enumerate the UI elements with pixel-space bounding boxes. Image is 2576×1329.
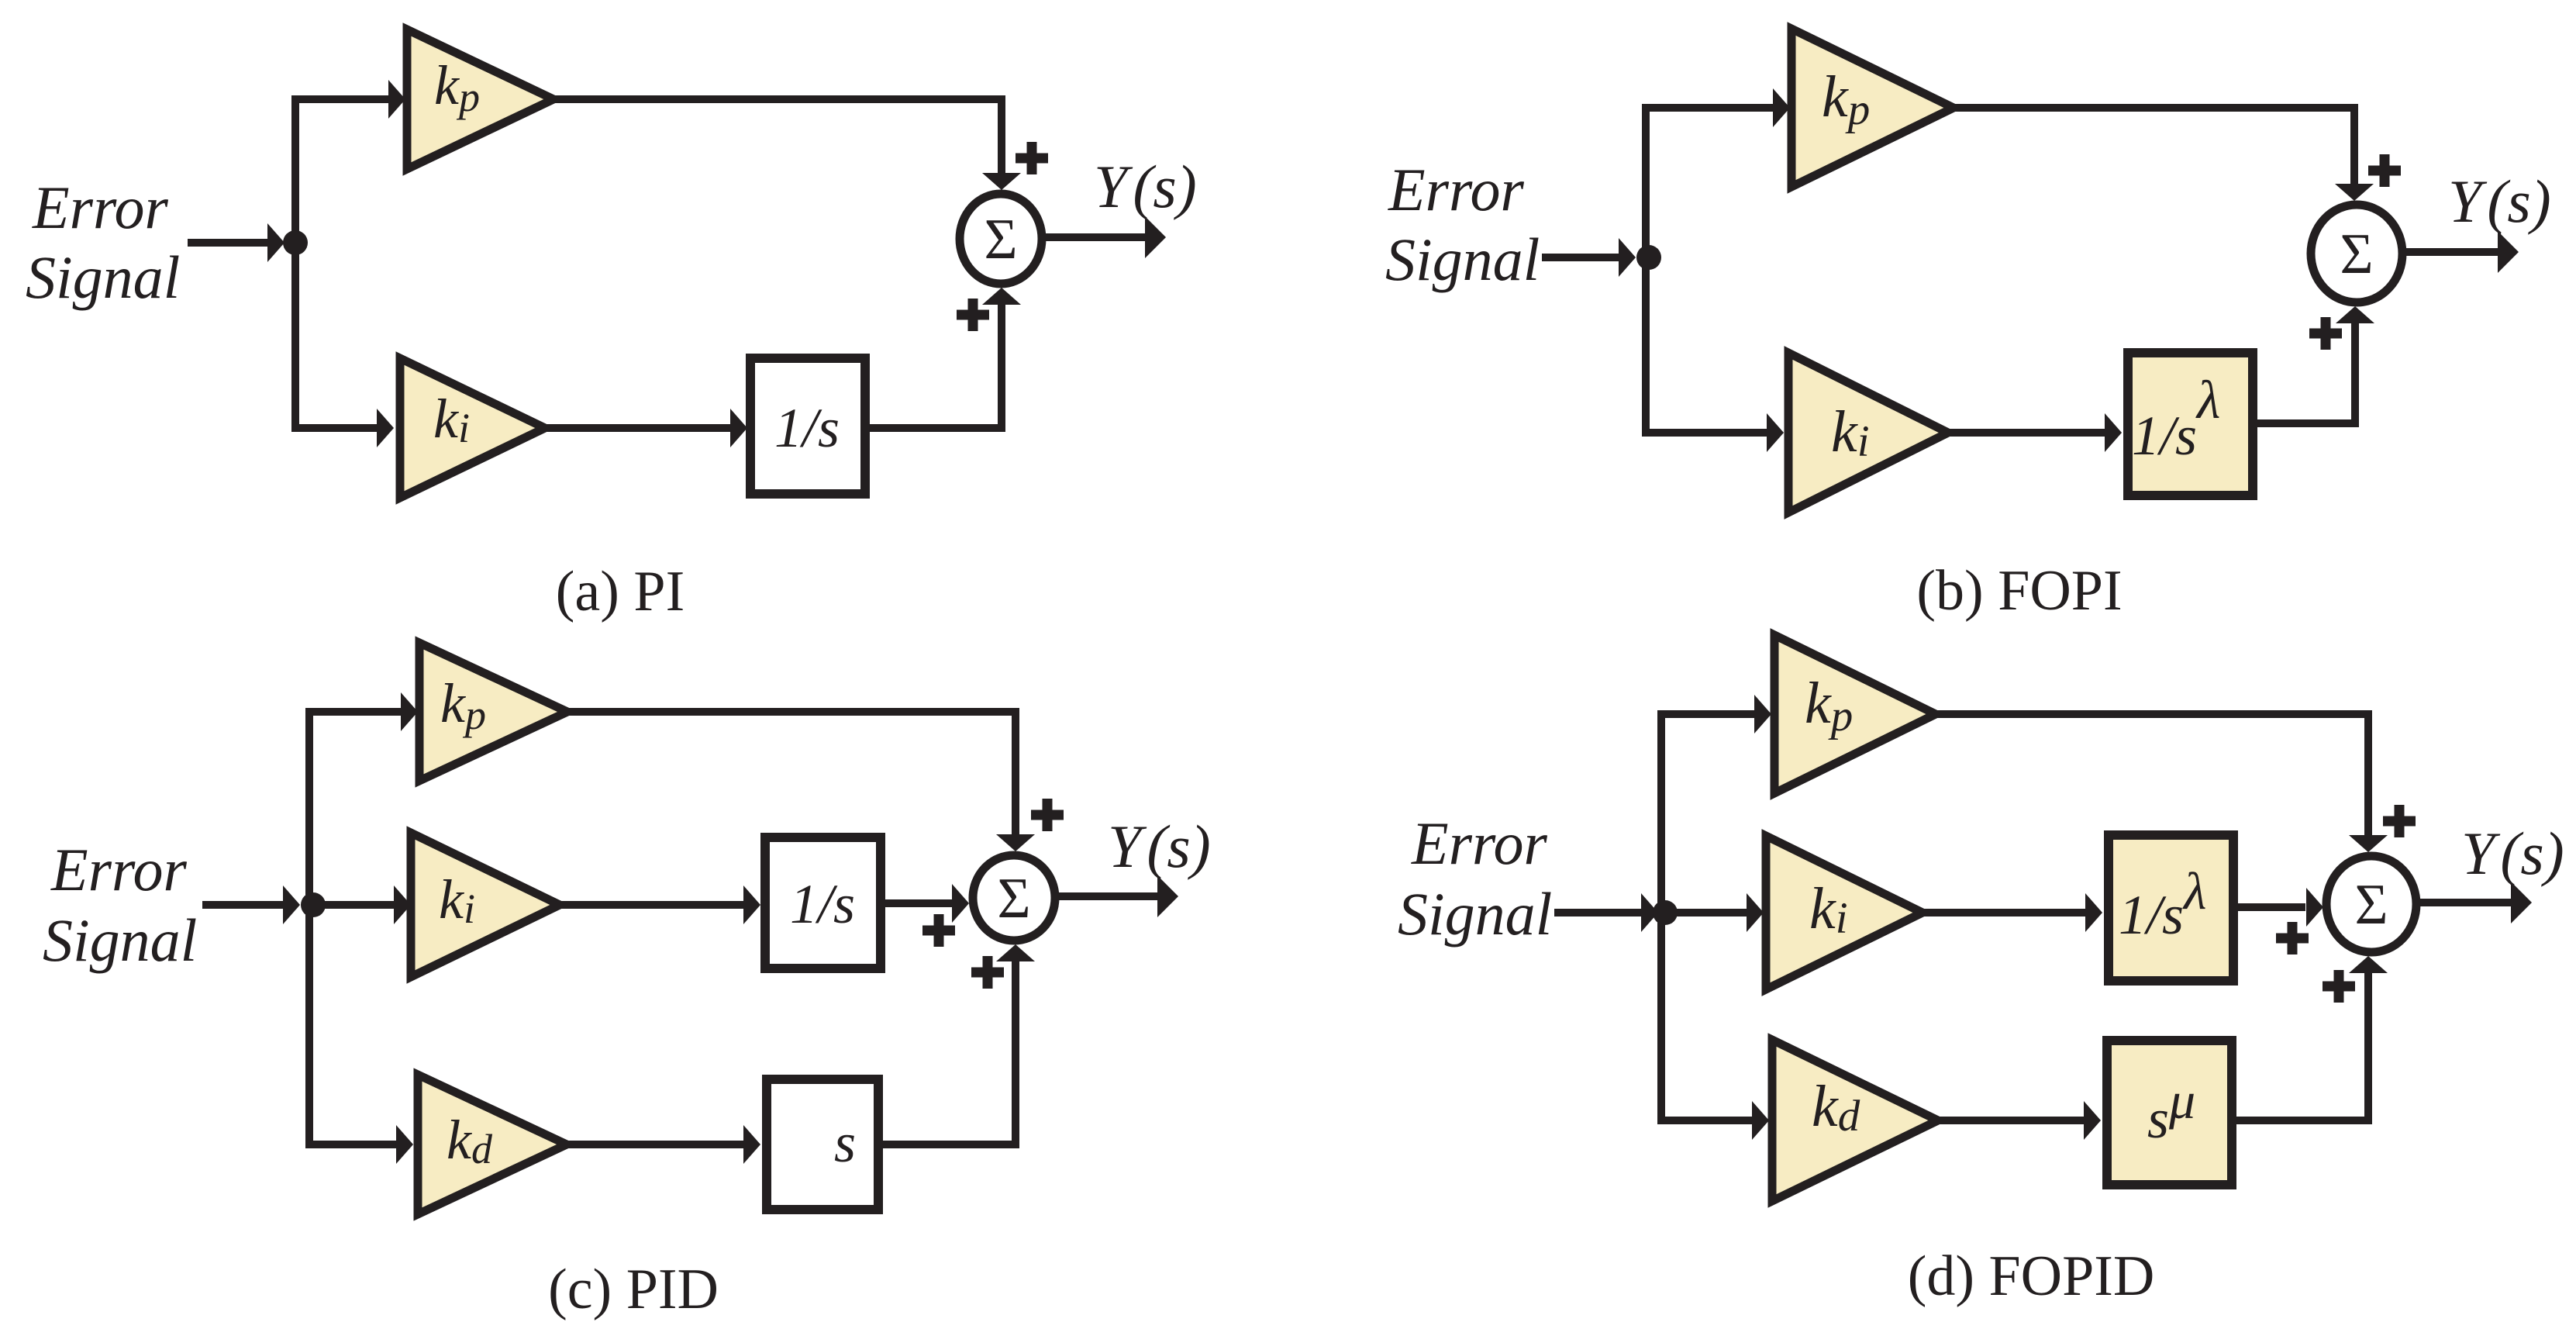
- arrowhead into sum bottom (b): [2336, 306, 2374, 323]
- wire branch vertical + top/bottom (a): [295, 99, 389, 428]
- wire kd to box (d): [1938, 1117, 2085, 1124]
- arrowhead into kp (a): [388, 80, 405, 119]
- arrowhead into 1/s (a): [730, 409, 747, 447]
- arrowhead into sum top (c): [996, 834, 1035, 851]
- gain kp (b): [1791, 29, 1954, 187]
- arrowhead into kp (c): [401, 692, 418, 731]
- plus sign bottom (d): [2323, 970, 2355, 1003]
- fractional integrator block 1/s^lambda (b): [2128, 353, 2253, 495]
- svg-text:Error: Error: [1388, 156, 1524, 223]
- svg-text:(c) PID: (c) PID: [548, 1258, 719, 1321]
- arrowhead into sum top (d): [2349, 835, 2388, 852]
- svg-text:(a) PI: (a) PI: [556, 560, 685, 623]
- arrowhead into sum top (b): [2335, 184, 2374, 201]
- svg-text:Y(s): Y(s): [1094, 153, 1197, 220]
- svg-text:Signal: Signal: [26, 243, 180, 311]
- arrowhead into 1/s^lambda (b): [2105, 413, 2122, 452]
- wire output (c): [1058, 892, 1158, 900]
- svg-text:Error: Error: [1411, 809, 1547, 877]
- svg-text:Y(s): Y(s): [2461, 820, 2564, 887]
- svg-text:Σ: Σ: [2340, 223, 2373, 286]
- arrowhead into sum left (c): [952, 884, 969, 923]
- wire ki to box (a): [545, 424, 731, 432]
- wire branch vertical + top/bottom (c): [309, 712, 402, 1144]
- summing junction (d): [2326, 856, 2416, 952]
- svg-text:(d) FOPID: (d) FOPID: [1908, 1244, 2155, 1308]
- wire input (d): [1554, 909, 1642, 916]
- node input junction (c): [301, 892, 326, 917]
- arrowhead output (c): [1157, 875, 1178, 917]
- plus sign middle (d): [2276, 922, 2309, 954]
- plus sign top (a): [1016, 142, 1048, 174]
- arrowhead into node (a): [267, 223, 284, 262]
- svg-text:Y(s): Y(s): [2448, 167, 2551, 235]
- plus sign bottom (a): [957, 299, 989, 331]
- wire output (d): [2418, 899, 2512, 906]
- svg-text:(b) FOPI: (b) FOPI: [1916, 559, 2122, 623]
- wire output (a): [1046, 233, 1146, 241]
- arrowhead into s^mu (d): [2084, 1101, 2101, 1140]
- arrowhead into kd (c): [396, 1125, 413, 1164]
- svg-text:Σ: Σ: [984, 208, 1017, 271]
- gain ki (c): [411, 833, 560, 977]
- gain kp (d): [1774, 635, 1936, 793]
- node input junction (d): [1653, 900, 1678, 925]
- wire kp to sum (b): [1954, 108, 2354, 184]
- svg-text:Error: Error: [32, 174, 168, 241]
- wire kp to sum (c): [567, 712, 1016, 834]
- svg-text:s: s: [834, 1112, 856, 1174]
- wire 1/s to sum (a): [865, 305, 1002, 428]
- wire middle branch (c): [313, 901, 395, 909]
- wire s^mu to sum (d): [2236, 973, 2368, 1120]
- gain ki (d): [1766, 836, 1923, 989]
- plus sign middle (c): [922, 914, 955, 947]
- svg-text:Σ: Σ: [2354, 873, 2388, 937]
- arrowhead into ki (b): [1767, 413, 1784, 452]
- arrowhead into node (d): [1641, 893, 1658, 932]
- arrowhead into ki (a): [377, 409, 394, 447]
- wire kp to sum (a): [553, 99, 1002, 174]
- svg-text:Σ: Σ: [997, 867, 1030, 930]
- wire branch vertical + top/bottom (d): [1661, 714, 1755, 1120]
- arrowhead into kp (d): [1754, 695, 1771, 734]
- arrowhead into sum top (a): [982, 173, 1021, 190]
- svg-text:Y(s): Y(s): [1108, 813, 1211, 880]
- gain kp (a): [407, 29, 553, 169]
- wire box to sum (d): [2238, 903, 2305, 911]
- wire kd to box (c): [567, 1141, 744, 1148]
- svg-text:1/s: 1/s: [790, 873, 855, 935]
- arrowhead into s block (c): [743, 1125, 760, 1164]
- gain ki (b): [1788, 353, 1948, 513]
- gain ki (a): [400, 358, 545, 498]
- arrowhead into ki (d): [1747, 893, 1764, 932]
- arrowhead output (b): [2498, 231, 2519, 273]
- node input junction (b): [1636, 245, 1661, 270]
- gain kp (c): [419, 643, 567, 781]
- svg-text:Signal: Signal: [43, 906, 197, 974]
- wire ki to box (b): [1948, 429, 2105, 437]
- plus sign top (b): [2368, 154, 2401, 187]
- svg-text:1/s: 1/s: [774, 397, 840, 459]
- arrowhead into node (b): [1619, 238, 1636, 277]
- arrowhead into ki (c): [394, 885, 411, 924]
- arrowhead into kd (d): [1752, 1101, 1769, 1140]
- wire ki to box (d): [1923, 909, 2086, 916]
- derivative block s (c): [767, 1079, 878, 1210]
- wire kp to sum (d): [1936, 714, 2368, 835]
- plus sign bottom (c): [971, 956, 1004, 989]
- arrowhead into 1/s (c): [743, 885, 760, 924]
- arrowhead into node (c): [283, 885, 300, 924]
- plus sign bottom (b): [2309, 317, 2342, 350]
- arrowhead into sum bottom (c): [996, 944, 1035, 961]
- gain kd (d): [1772, 1040, 1938, 1201]
- wire box to sum (c): [881, 899, 952, 907]
- svg-text:Signal: Signal: [1385, 226, 1540, 293]
- integrator block 1/s (c): [765, 837, 881, 968]
- arrowhead output (a): [1145, 216, 1166, 258]
- gain kd (c): [418, 1075, 567, 1214]
- wire box to sum (b): [2257, 323, 2355, 423]
- arrowhead into kp (b): [1773, 88, 1790, 127]
- arrowhead output (d): [2511, 882, 2532, 923]
- wire middle branch (d): [1665, 909, 1747, 916]
- arrowhead into sum bottom (d): [2349, 956, 2388, 973]
- wire input (c): [202, 901, 284, 909]
- fractional integrator block 1/s^lambda (d): [2109, 835, 2233, 981]
- wire input (a): [188, 239, 268, 247]
- node input junction (a): [283, 230, 308, 255]
- fractional derivative block s^mu (d): [2107, 1041, 2232, 1185]
- summing junction (b): [2311, 205, 2402, 302]
- summing junction (a): [960, 194, 1042, 284]
- plus sign top (c): [1031, 799, 1064, 831]
- wire input (b): [1542, 254, 1619, 261]
- arrowhead into sum bottom (a): [982, 288, 1021, 305]
- plus sign top (d): [2383, 805, 2416, 837]
- svg-text:Signal: Signal: [1398, 880, 1552, 948]
- summing junction (c): [973, 855, 1055, 941]
- integrator block 1/s (a): [750, 358, 865, 494]
- svg-text:Error: Error: [50, 836, 187, 903]
- wire output (b): [2403, 248, 2498, 256]
- arrowhead into sum left (d): [2306, 888, 2323, 927]
- wire branch vertical + top/bottom (b): [1646, 108, 1774, 433]
- arrowhead into 1/s^lambda (d): [2085, 893, 2102, 932]
- wire s to sum (c): [878, 961, 1016, 1144]
- wire ki to box (c): [560, 901, 744, 909]
